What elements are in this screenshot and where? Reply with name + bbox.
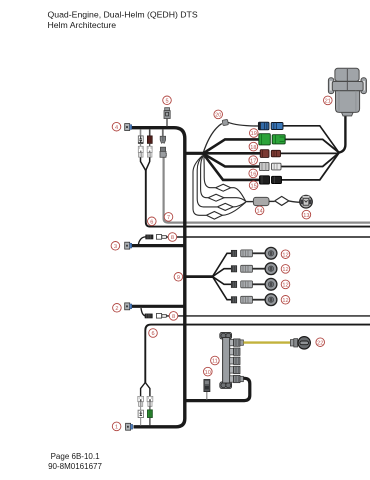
svg-text:7: 7 (167, 215, 170, 221)
svg-text:16: 16 (250, 172, 256, 178)
row 12 #1 (231, 247, 277, 259)
row 12 #2 (231, 263, 277, 275)
svg-text:12: 12 (282, 283, 288, 289)
circle 16 (249, 169, 258, 178)
circle 2 (113, 304, 122, 313)
wire slack loop C (197, 156, 246, 211)
connector 8a black (146, 235, 153, 239)
callout numbers (114, 99, 331, 431)
circle 13 (302, 210, 311, 219)
wire slack loop B (201, 156, 246, 202)
fuse holder drop 2 (dark red) (146, 130, 153, 171)
wire 6 long horizontal (146, 170, 370, 227)
bottom assembly Y split (141, 383, 146, 397)
row 12 #3 (231, 278, 277, 290)
svg-text:Helm Architecture: Helm Architecture (48, 20, 117, 30)
svg-text:4: 4 (115, 125, 118, 131)
wire slack loop D (193, 156, 246, 220)
helm1 DTS fan rows (9 -> 12s) (213, 253, 232, 299)
round connector 22 (298, 337, 310, 349)
footer text (48, 452, 102, 471)
circle 12-3 (281, 280, 290, 289)
circle 22 (316, 338, 325, 347)
circle 21 (324, 96, 333, 105)
connector 10 (204, 380, 210, 400)
svg-text:20: 20 (215, 113, 221, 119)
svg-text:18: 18 (250, 145, 256, 151)
connector 2 (125, 303, 132, 310)
connector 13 round (300, 195, 313, 208)
circle 12-4 (281, 296, 290, 305)
svg-text:8: 8 (171, 235, 174, 241)
circle 7 (164, 213, 173, 222)
wire black row (203, 154, 261, 180)
wire gray row (203, 154, 261, 167)
connector 22 plug (290, 339, 297, 347)
circle 11 (211, 356, 220, 365)
wire 14 to loop (269, 200, 275, 202)
wire slack loop E (275, 196, 289, 205)
circle 17 (249, 156, 258, 165)
svg-text:13: 13 (303, 213, 309, 219)
svg-text:6: 6 (151, 331, 154, 337)
wire fan to connector20 and blue row (203, 124, 222, 153)
circle 19 (250, 129, 259, 138)
row 12 #4 (231, 294, 277, 306)
svg-text:12: 12 (282, 267, 288, 273)
wire trunk to fan point F (185, 152, 204, 155)
circle 20 (214, 110, 223, 119)
terminal screws (230, 339, 244, 383)
connector pair black (16/15) (260, 176, 282, 184)
svg-text:6: 6 (150, 220, 153, 226)
branch 8b from wire2 (141, 308, 146, 316)
svg-text:2: 2 (115, 306, 118, 312)
svg-text:14: 14 (256, 209, 262, 215)
circle 1 (112, 422, 121, 431)
wire slack loop A (204, 156, 246, 202)
svg-text:10: 10 (205, 370, 211, 376)
branch 8a from wire3 (138, 237, 145, 245)
fuse holder drop 1 (white) (138, 130, 145, 171)
svg-text:17: 17 (250, 158, 256, 164)
circle 5 (163, 96, 172, 105)
bottom white fuse holder (138, 406, 143, 425)
svg-text:22: 22 (317, 340, 323, 346)
svg-text:9: 9 (177, 275, 180, 281)
circle 3 (111, 242, 120, 251)
svg-text:11: 11 (212, 359, 218, 365)
svg-text:8: 8 (172, 314, 175, 320)
red callout circles (111, 96, 332, 431)
svg-text:12: 12 (282, 298, 288, 304)
circle 4 (112, 122, 121, 131)
terminal block 11 (220, 332, 232, 388)
bottom connector pair right (147, 396, 153, 406)
circle 8a (168, 233, 177, 242)
connector pair blue (row 20/19) (258, 122, 283, 130)
wire 6b long horizontal to bottom assembly (145, 325, 370, 383)
svg-text:12: 12 (282, 252, 288, 258)
connector pair green (19) (259, 134, 285, 145)
svg-text:5: 5 (165, 99, 168, 105)
bottom connector pair left (138, 396, 144, 406)
circle 9 (174, 273, 183, 282)
wire blue row right (283, 126, 339, 153)
wire green row (203, 139, 260, 153)
circle 10 (204, 367, 213, 376)
connector 3 (125, 242, 132, 249)
circle 12-2 (281, 265, 290, 274)
wire convergence to inline filter 14 (246, 201, 254, 203)
svg-text:Quad-Engine, Dual-Helm (QEDH): Quad-Engine, Dual-Helm (QEDH) DTS (48, 10, 198, 20)
inline filter 14 (253, 197, 269, 205)
svg-text:19: 19 (251, 131, 257, 137)
wire 8b helm2 long horizontal (166, 315, 370, 317)
circle 6a (148, 217, 157, 226)
circle 18 (249, 142, 258, 151)
bottom green fuse holder (148, 406, 153, 425)
connector 1 (126, 423, 133, 430)
svg-text:90-8M0161677: 90-8M0161677 (48, 462, 102, 471)
circle 8b (169, 312, 178, 321)
circle 14 (255, 206, 264, 215)
connector 21 engine CAN (328, 68, 366, 116)
connector 20 (222, 119, 228, 125)
connector 4 (125, 124, 132, 131)
wire yellow to key switch 22 (243, 341, 290, 343)
svg-text:21: 21 (325, 99, 331, 105)
wire connector2 to trunk (132, 305, 185, 308)
svg-text:15: 15 (250, 184, 256, 190)
connector 5 (164, 108, 170, 127)
svg-text:Page 6B-10.1: Page 6B-10.1 (51, 452, 100, 461)
svg-text:3: 3 (114, 244, 117, 250)
connector 8a white plug (156, 235, 166, 240)
wire 9 trunk to fan (185, 275, 213, 278)
circle 12-1 (281, 250, 290, 259)
main harness trunk (132, 128, 185, 427)
wire convergence to connector21 (338, 112, 345, 152)
wire trunk to terminal block (185, 378, 250, 400)
circle 15 (249, 181, 258, 190)
connector drop 3 (gray) (160, 130, 167, 158)
wire loop to connector13 (289, 201, 300, 202)
connector pair dark red (18) (260, 150, 280, 158)
wire connector3 to trunk (132, 244, 185, 247)
title text (48, 10, 198, 30)
circle 6b (149, 329, 158, 338)
wire darkred row (203, 152, 261, 155)
svg-text:1: 1 (115, 425, 118, 431)
wire 8a helm1 long horizontal (166, 236, 370, 238)
connector 8b white plug (156, 314, 166, 319)
connector pair gray (17) (260, 162, 282, 170)
connector 8b black (145, 314, 152, 318)
wire 7 gray long horizontal (164, 157, 370, 223)
